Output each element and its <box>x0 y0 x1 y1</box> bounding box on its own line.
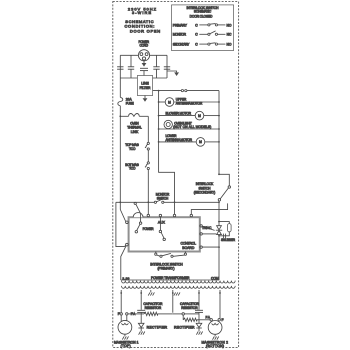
svg-text:RESISTOR: RESISTOR <box>145 306 162 310</box>
svg-text:AUX: AUX <box>158 221 166 225</box>
svg-text:CORD: CORD <box>140 44 149 48</box>
svg-text:BOARD: BOARD <box>182 246 194 250</box>
svg-text:2.30: 2.30 <box>122 276 129 280</box>
svg-text:SNUBBER: SNUBBER <box>221 238 236 242</box>
svg-text:NC: NC <box>227 33 232 37</box>
svg-text:SCHEMATIC: SCHEMATIC <box>194 9 212 13</box>
svg-text:(TOP): (TOP) <box>121 344 131 348</box>
svg-text:PRIMARY: PRIMARY <box>173 23 188 27</box>
svg-text:POWER TRANSFORMER: POWER TRANSFORMER <box>151 276 190 280</box>
svg-text:SECONDARY: SECONDARY <box>173 43 190 47</box>
svg-text:ANTENNA MOTOR: ANTENNA MOTOR <box>166 138 193 142</box>
svg-text:M: M <box>168 100 171 104</box>
svg-text:FUSE: FUSE <box>126 101 135 105</box>
svg-text:ANTENNA MOTOR: ANTENNA MOTOR <box>176 102 203 106</box>
svg-text:LINK: LINK <box>131 130 139 134</box>
svg-text:SWITCH: SWITCH <box>157 196 169 200</box>
svg-text:DOOR OPEN: DOOR OPEN <box>130 28 160 33</box>
svg-text:MONITOR: MONITOR <box>173 33 187 37</box>
svg-text:(BOTTOM): (BOTTOM) <box>206 344 224 348</box>
svg-text:TCO: TCO <box>129 167 136 171</box>
svg-text:RECTIFIER: RECTIFIER <box>147 326 168 330</box>
svg-text:F: F <box>222 318 224 322</box>
svg-text:NO: NO <box>227 23 232 27</box>
svg-text:COM: COM <box>211 276 219 280</box>
svg-text:DOOR CLOSED: DOOR CLOSED <box>190 14 213 18</box>
svg-text:TRIAC: TRIAC <box>202 226 212 230</box>
svg-text:M: M <box>199 140 202 144</box>
svg-text:POWER: POWER <box>143 227 155 231</box>
svg-text:3-WIRE: 3-WIRE <box>132 10 151 15</box>
svg-text:(PRIMARY): (PRIMARY) <box>158 266 175 270</box>
svg-text:(NOT ON ALL MODELS): (NOT ON ALL MODELS) <box>173 125 211 129</box>
svg-text:BLOWER MOTOR: BLOWER MOTOR <box>166 111 192 115</box>
svg-text:RECTIFIER: RECTIFIER <box>174 326 195 330</box>
svg-text:M: M <box>198 114 201 118</box>
svg-text:F: F <box>118 312 120 316</box>
svg-text:NO: NO <box>227 43 232 47</box>
svg-text:FILTER: FILTER <box>140 86 151 90</box>
svg-text:RESISTOR: RESISTOR <box>181 306 198 310</box>
svg-text:(SECONDARY): (SECONDARY) <box>194 191 216 195</box>
svg-text:TCO: TCO <box>129 147 136 151</box>
